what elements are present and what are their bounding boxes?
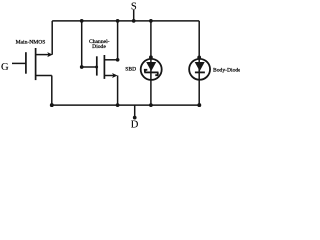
wire main NMOS drain vertical [51,21,53,55]
wire bottom rail node D [52,104,200,106]
junction dot channel-diode gate corner [80,65,84,69]
transistor Q2 channel-diode drain lead [104,59,117,61]
junction dot SBD anode wire [149,55,153,59]
wire channel-diode gate branch vertical [81,21,83,67]
transistor Q2 channel-diode gate lead [82,66,97,68]
wire top rail node S [52,20,199,22]
junction dot channel-diode drain corner [116,58,120,62]
transistor Q1 main NMOS gate lead [12,62,26,64]
svg-text:D: D [131,119,139,128]
diode D1 SBD circle [141,59,162,80]
transistor Q2 channel-diode gate bar [96,56,98,75]
junction dot body-diode anode wire [197,56,201,60]
junction dot channel-diode gate bar joint [95,66,98,69]
wire body-diode branch vertical [198,21,200,105]
junction dot bottom rail at SBD branch [149,103,153,107]
junction dot top rail at channel-diode drain branch [116,19,120,23]
transistor Q1 main NMOS drain arrowhead [47,52,52,57]
transistor Q2 channel-diode source arrowhead [112,73,117,78]
junction dot bottom rail left corner [50,103,54,107]
transistor Q2 channel-diode source lead [104,75,113,77]
junction dot bottom rail at channel-diode branch [116,103,120,107]
diode D2 body-diode cathode bar [195,71,205,73]
diode D1 SBD schottky right hook [155,72,158,75]
transistor Q2 channel-diode channel bar [103,55,105,79]
node S terminal stub [133,10,135,21]
junction dot top rail at SBD branch [149,19,153,23]
svg-text:S: S [131,1,137,12]
svg-text:Main-NMOS: Main-NMOS [16,39,46,45]
junction dot D stub end [133,116,137,120]
transistor Q1 main NMOS drain lead [36,54,49,56]
diode D1 SBD schottky cathode bar [144,71,158,73]
svg-text:G: G [1,62,9,73]
diode D1 SBD schottky left hook [144,70,147,73]
junction dot top rail at channel-diode gate branch [80,19,84,23]
diode D2 body-diode triangle [195,62,205,71]
wire SBD branch vertical [150,21,152,105]
svg-text:SBD: SBD [125,67,136,73]
transistor Q1 main NMOS source lead [36,75,52,77]
diode D2 body-diode circle [189,59,210,80]
diode D1 SBD triangle [146,62,156,71]
transistor Q1 main NMOS gate bar [25,52,27,73]
svg-text:Diode: Diode [92,44,106,50]
node D terminal stub [134,105,136,117]
junction dot top rail at S stub [132,19,136,23]
junction dot bottom rail right corner [197,103,201,107]
transistor Q1 main NMOS channel bar [35,48,37,80]
wire channel-diode source vertical to bottom rail [117,76,119,106]
wire channel-diode drain vertical to top rail [117,21,119,60]
wire main NMOS source vertical [51,76,53,106]
svg-text:Body-Diode: Body-Diode [213,68,240,74]
